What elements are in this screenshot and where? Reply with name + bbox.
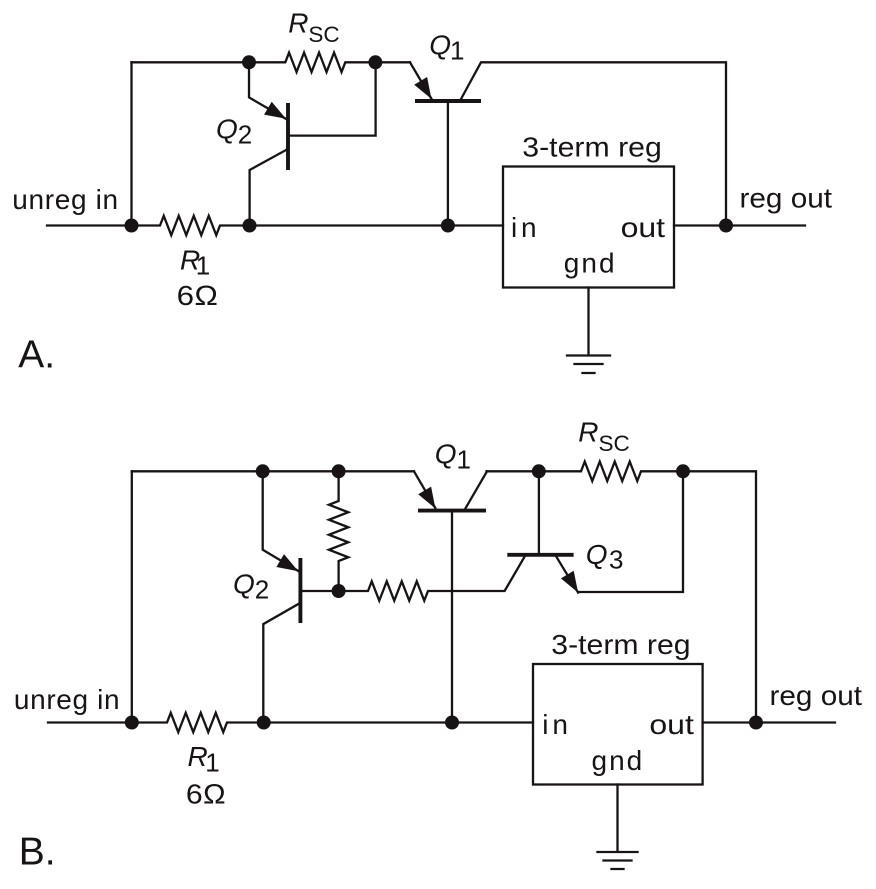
svg-text:Q1: Q1 bbox=[429, 30, 464, 66]
svg-text:Q2: Q2 bbox=[216, 113, 252, 149]
svg-text:in: in bbox=[511, 212, 540, 243]
svg-text:Q2: Q2 bbox=[233, 569, 269, 605]
svg-text:out: out bbox=[649, 709, 694, 740]
svg-text:gnd: gnd bbox=[592, 745, 645, 776]
svg-text:A.: A. bbox=[18, 334, 55, 377]
svg-text:out: out bbox=[621, 212, 666, 243]
svg-text:reg out: reg out bbox=[770, 680, 863, 711]
svg-text:in: in bbox=[542, 709, 571, 740]
svg-text:Q1: Q1 bbox=[435, 439, 471, 475]
svg-text:reg out: reg out bbox=[740, 183, 833, 214]
svg-text:gnd: gnd bbox=[564, 248, 617, 279]
svg-text:6Ω: 6Ω bbox=[186, 778, 226, 809]
svg-text:B.: B. bbox=[19, 831, 56, 874]
svg-text:R1: R1 bbox=[188, 741, 220, 778]
svg-text:3-term reg: 3-term reg bbox=[551, 629, 690, 660]
svg-text:unreg in: unreg in bbox=[14, 684, 120, 715]
svg-text:R1: R1 bbox=[180, 244, 210, 280]
svg-text:6Ω: 6Ω bbox=[177, 280, 219, 311]
svg-text:RSC: RSC bbox=[578, 417, 630, 457]
svg-text:3-term reg: 3-term reg bbox=[522, 131, 662, 162]
svg-text:RSC: RSC bbox=[288, 8, 340, 48]
svg-text:Q3: Q3 bbox=[586, 539, 624, 575]
svg-text:unreg in: unreg in bbox=[12, 184, 118, 215]
